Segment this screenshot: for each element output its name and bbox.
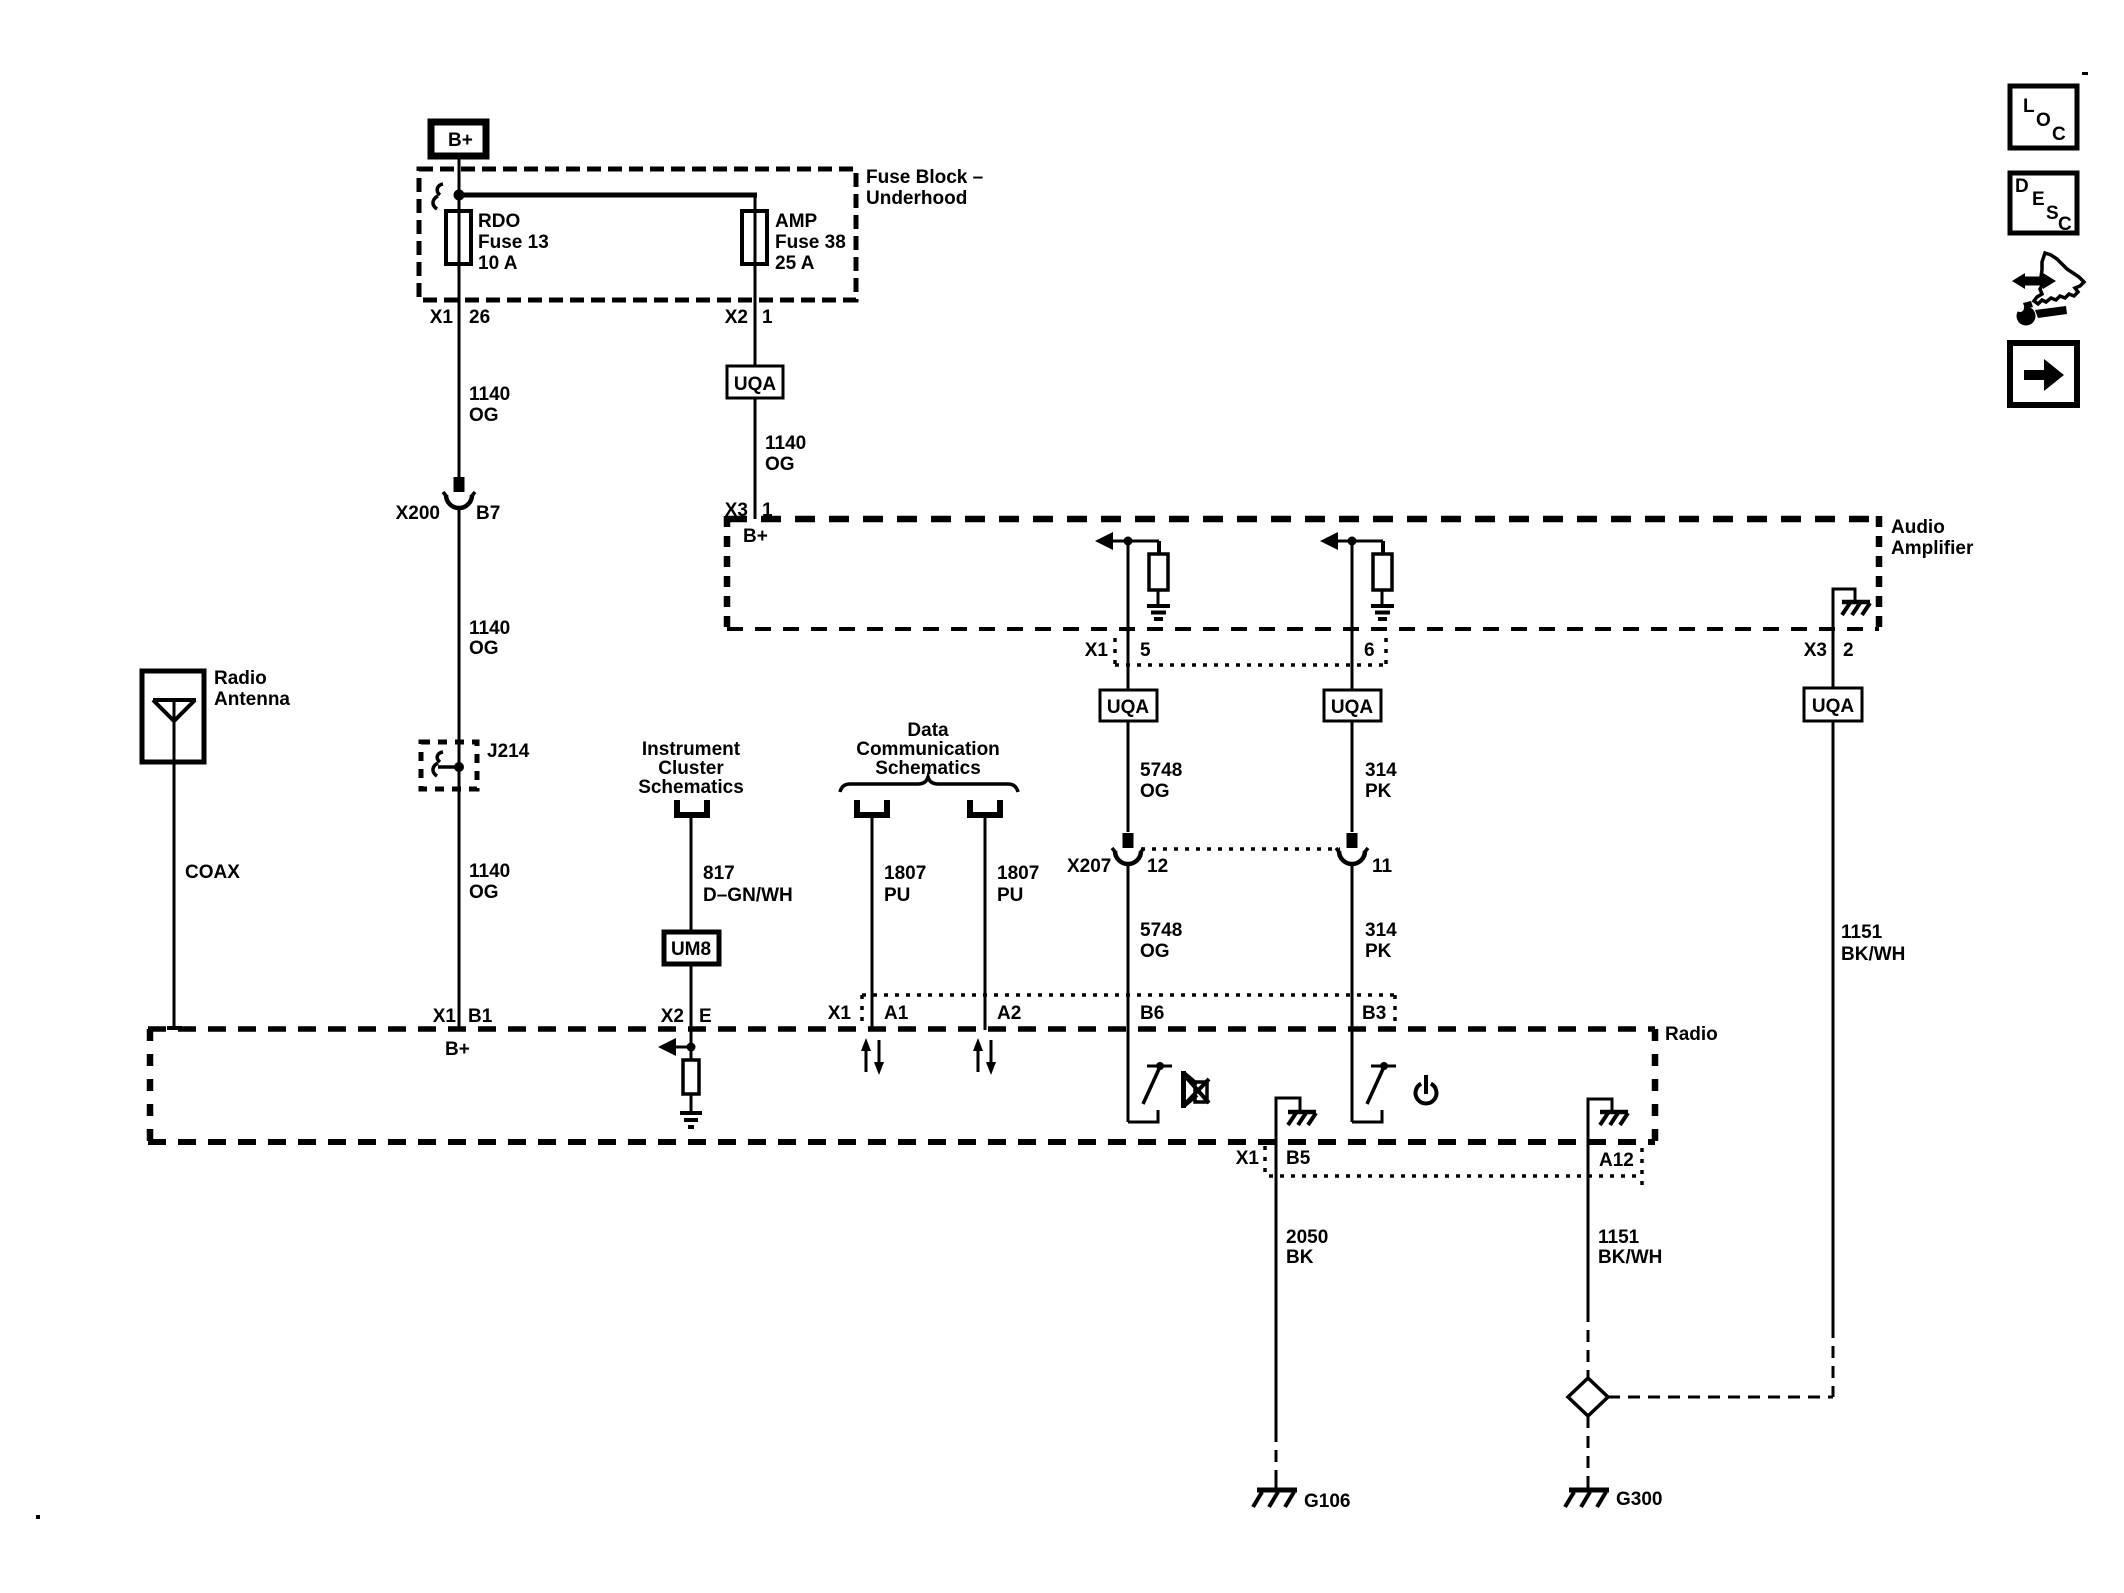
data communication schematics label [856, 720, 1000, 779]
svg-text:1140: 1140 [469, 618, 510, 639]
wire label 1140 OG (left wire upper) [469, 384, 510, 426]
svg-text:5748: 5748 [1140, 760, 1182, 781]
wire amp pin5 down [1127, 541, 1130, 690]
serial data arrows A1 [861, 1038, 884, 1075]
svg-text:B3: B3 [1362, 1003, 1386, 1024]
pin label X2 1 [725, 307, 773, 328]
svg-text:Cluster: Cluster [658, 758, 724, 779]
label X207 12 [1067, 856, 1168, 877]
svg-text:PU: PU [884, 885, 910, 906]
svg-text:5: 5 [1140, 640, 1151, 661]
svg-text:O: O [2036, 110, 2051, 131]
svg-text:Radio: Radio [1665, 1024, 1718, 1045]
in-line connector X207 pin11 [1336, 833, 1368, 864]
svg-text:AMP: AMP [775, 211, 818, 232]
svg-text:E: E [699, 1006, 712, 1027]
svg-text:L: L [2023, 96, 2035, 117]
svg-text:OG: OG [1140, 941, 1170, 962]
wire label 1140 OG (left wire middle) [469, 618, 510, 659]
svg-text:Antenna: Antenna [214, 689, 290, 710]
radio B3 switch [1352, 1030, 1396, 1122]
wire 1807 A1 [871, 818, 874, 1030]
wire label 1140 OG (left wire lower) [469, 861, 510, 903]
RPO code UQA box (X3) [1804, 688, 1862, 721]
radio connector X1 dotted bracket bottom [1265, 1146, 1642, 1190]
wire B+ vertical main [458, 156, 461, 492]
RPO code UQA box (pin5) [1100, 690, 1157, 721]
svg-text:Radio: Radio [214, 668, 267, 689]
wire 1151 from amp UQA [1832, 721, 1835, 1326]
svg-text:2050: 2050 [1286, 1227, 1328, 1248]
pin label X3 2 [1804, 640, 1854, 661]
svg-text:PK: PK [1365, 941, 1392, 962]
svg-text:UQA: UQA [1812, 696, 1855, 717]
label audio amplifier [1891, 517, 1974, 559]
svg-text:OG: OG [469, 882, 499, 903]
svg-text:A12: A12 [1599, 1150, 1634, 1171]
svg-text:10 A: 10 A [478, 253, 518, 274]
svg-text:Audio: Audio [1891, 517, 1945, 538]
radio internal chassis ground (A12) [1588, 1099, 1628, 1143]
svg-text:2: 2 [1843, 640, 1854, 661]
splice J214 dashed box [421, 742, 477, 789]
dashed wire diamond to G300 [1587, 1416, 1590, 1482]
wire 5748 upper [1127, 721, 1130, 832]
svg-text:Communication: Communication [856, 739, 1000, 760]
svg-text:A1: A1 [884, 1003, 909, 1024]
dotted connector line X207 [1141, 847, 1340, 851]
svg-text:11: 11 [1372, 856, 1393, 877]
svg-text:C: C [2058, 214, 2072, 235]
wire AMP fuse down [754, 195, 757, 519]
fuse block underhood dashed box [419, 169, 856, 300]
svg-text:X207: X207 [1067, 856, 1111, 877]
svg-text:B+: B+ [445, 1039, 470, 1060]
svg-text:X200: X200 [396, 503, 440, 524]
svg-text:RDO: RDO [478, 211, 520, 232]
radio internal chassis ground (B5) [1276, 1098, 1316, 1143]
power symbol icon [1416, 1075, 1437, 1103]
svg-text:12: 12 [1147, 856, 1168, 877]
wire label 314 PK lower [1365, 920, 1397, 962]
ground G106 [1253, 1482, 1297, 1507]
svg-text:314: 314 [1365, 920, 1397, 941]
splice diamond [1568, 1378, 1608, 1416]
svg-text:OG: OG [469, 405, 499, 426]
stray mark bottom left [36, 1515, 40, 1519]
pin labels radio top row [828, 1003, 1387, 1024]
off-page bracket instrument cluster [677, 800, 707, 815]
curly brace [840, 777, 1018, 792]
svg-text:5748: 5748 [1140, 920, 1182, 941]
svg-text:X3: X3 [1804, 640, 1827, 661]
icon forward arrow box [2010, 343, 2077, 405]
svg-text:Fuse 13: Fuse 13 [478, 232, 549, 253]
instrument cluster schematics label [638, 739, 744, 798]
svg-text:25 A: 25 A [775, 253, 815, 274]
fuse AMP Fuse38 25A [742, 211, 846, 274]
svg-text:Fuse Block –: Fuse Block – [866, 167, 983, 188]
in-line connector X200 B7 [443, 477, 475, 508]
junction dot at B+ bus [454, 190, 465, 201]
pin label X3 1 [725, 500, 773, 521]
radio connector X1 dotted bracket top [862, 995, 1395, 1028]
fuse RDO Fuse13 10A [446, 211, 549, 274]
svg-text:1: 1 [762, 307, 773, 328]
svg-text:OG: OG [469, 638, 499, 659]
wire 314 lower [1351, 864, 1354, 1030]
svg-text:1151: 1151 [1841, 922, 1883, 943]
svg-text:1140: 1140 [469, 384, 510, 405]
amplifier B+ tap 1 (pin 5) [1095, 532, 1170, 619]
label X200 B7 [396, 503, 501, 524]
svg-text:Schematics: Schematics [638, 777, 744, 798]
wire label 1151 BK/WH (amp) [1841, 922, 1905, 965]
dashed wire diamond to amp 1151 [1608, 1396, 1833, 1399]
wire label 5748 OG upper [1140, 760, 1182, 802]
amp connector X1 dotted bracket [1115, 638, 1386, 665]
audio amplifier dashed box [727, 516, 1879, 629]
svg-text:C: C [2052, 124, 2066, 145]
label radio antenna [214, 668, 290, 710]
wire UM8 to radio [690, 964, 693, 1060]
svg-text:6: 6 [1364, 640, 1375, 661]
svg-text:Data: Data [907, 720, 949, 741]
wire label 2050 BK [1286, 1227, 1328, 1268]
svg-text:BK: BK [1286, 1247, 1314, 1268]
svg-text:OG: OG [1140, 781, 1170, 802]
svg-text:X1: X1 [430, 307, 454, 328]
wire 1807 A2 [984, 818, 987, 1030]
wire 314 upper [1351, 721, 1354, 832]
svg-text:UQA: UQA [1107, 697, 1150, 718]
svg-text:PU: PU [997, 885, 1023, 906]
wire label 1807 PU (A2) [997, 863, 1039, 906]
off-page bracket data comm left [857, 800, 887, 815]
svg-text:1807: 1807 [997, 863, 1039, 884]
svg-text:D–GN/WH: D–GN/WH [703, 885, 793, 906]
pin label amp X1 5 [1085, 640, 1151, 661]
wire amp X3 pin2 [1832, 629, 1835, 688]
wire amp pin6 down [1351, 541, 1354, 690]
svg-text:314: 314 [1365, 760, 1397, 781]
pin label X1 26 [430, 307, 490, 328]
svg-text:Instrument: Instrument [642, 739, 741, 760]
RPO code UQA box top [727, 366, 783, 398]
svg-text:1151: 1151 [1598, 1227, 1640, 1248]
icon LOC box [2010, 86, 2077, 148]
svg-text:B+: B+ [448, 130, 473, 151]
pin labels radio bottom row [1236, 1148, 1634, 1171]
svg-text:OG: OG [765, 454, 795, 475]
wire bus to AMP fuse [459, 193, 757, 198]
svg-text:A2: A2 [997, 1003, 1021, 1024]
RPO code UM8 box [664, 932, 719, 964]
wire label 817 D-GN/WH [703, 863, 793, 906]
off-page bracket data comm right [970, 800, 1000, 815]
radio antenna box [142, 671, 204, 762]
power node B+ feed box [431, 122, 486, 156]
fuse block underhood label [866, 167, 983, 209]
svg-text:X2: X2 [725, 307, 748, 328]
svg-text:BK/WH: BK/WH [1841, 944, 1905, 965]
svg-text:B6: B6 [1140, 1003, 1164, 1024]
serial data arrows A2 [973, 1038, 996, 1075]
svg-text:1140: 1140 [765, 433, 806, 454]
wire label 1807 PU (A1) [884, 863, 926, 906]
icon DESC box [2010, 173, 2077, 235]
wire label 1151 BK/WH (A12) [1598, 1227, 1662, 1268]
svg-text:UQA: UQA [1331, 697, 1374, 718]
icon double arrow with outline and wrench [2012, 253, 2084, 326]
amplifier chassis ground (right) [1833, 589, 1870, 629]
svg-text:Underhood: Underhood [866, 188, 967, 209]
speaker mute icon [1181, 1071, 1209, 1108]
svg-text:1807: 1807 [884, 863, 926, 884]
svg-text:COAX: COAX [185, 862, 240, 883]
svg-text:B7: B7 [476, 503, 500, 524]
wire 1151 BK/WH from A12 [1587, 1143, 1590, 1310]
svg-text:G300: G300 [1616, 1489, 1662, 1510]
svg-text:UQA: UQA [734, 374, 777, 395]
svg-text:UM8: UM8 [671, 939, 711, 960]
wire COAX [173, 762, 176, 1029]
wire 817 from instrument cluster [690, 818, 693, 932]
svg-text:S: S [2046, 203, 2059, 224]
svg-text:J214: J214 [487, 741, 530, 762]
svg-text:E: E [2032, 189, 2045, 210]
radio B6 switch [1128, 1030, 1172, 1122]
svg-text:D: D [2015, 176, 2029, 197]
svg-text:Fuse 38: Fuse 38 [775, 232, 846, 253]
svg-text:26: 26 [469, 307, 490, 328]
amplifier B+ tap 2 (pin 6) [1320, 532, 1394, 619]
stray mark top right [2082, 72, 2088, 75]
svg-text:G106: G106 [1304, 1491, 1350, 1512]
svg-text:BK/WH: BK/WH [1598, 1247, 1662, 1268]
radio E pin arrow and resistor to ground [658, 1038, 702, 1127]
pin label X2 E [661, 1006, 712, 1027]
pin label X1 B1 [433, 1006, 493, 1027]
svg-text:817: 817 [703, 863, 735, 884]
svg-text:B1: B1 [468, 1006, 493, 1027]
radio dashed box [148, 1029, 1655, 1142]
svg-text:Amplifier: Amplifier [1891, 538, 1974, 559]
svg-text:1140: 1140 [469, 861, 510, 882]
wire label 5748 OG lower [1140, 920, 1182, 962]
svg-text:PK: PK [1365, 781, 1392, 802]
svg-text:B+: B+ [743, 526, 768, 547]
svg-text:X1: X1 [828, 1003, 852, 1024]
wire 2050 BK [1275, 1143, 1278, 1430]
ground G300 [1565, 1482, 1609, 1507]
svg-text:X1: X1 [433, 1006, 457, 1027]
svg-text:X2: X2 [661, 1006, 684, 1027]
svg-text:X1: X1 [1085, 640, 1109, 661]
wire label 314 PK upper [1365, 760, 1397, 802]
wire 5748 lower [1127, 864, 1130, 1030]
in-line connector X207 pin12 [1112, 833, 1144, 864]
wire label 1140 OG (right branch) [765, 433, 806, 475]
svg-text:B5: B5 [1286, 1148, 1311, 1169]
splice curl at B+ bus [433, 184, 443, 209]
RPO code UQA box (pin6) [1324, 690, 1381, 721]
svg-text:X1: X1 [1236, 1148, 1260, 1169]
